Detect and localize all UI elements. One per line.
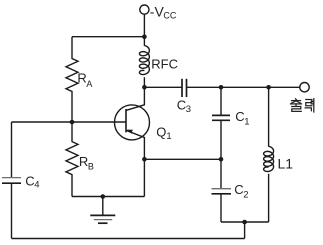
ground	[90, 197, 115, 224]
wire emitter to ground row	[143, 159, 145, 196]
wire bottom riser	[244, 222, 246, 239]
resistor RB	[66, 122, 78, 197]
capacitor C3	[181, 79, 183, 97]
junction dot (102.8,196.5)	[101, 194, 106, 199]
capacitor C1	[212, 114, 230, 116]
svg-text:RFC: RFC	[151, 56, 178, 71]
svg-text:L1: L1	[278, 156, 294, 172]
wire C2 top	[220, 159, 222, 188]
transistor Q1	[115, 87, 150, 159]
svg-text:Q: Q	[156, 124, 166, 139]
junction dot (221,87.3)	[219, 85, 224, 90]
junction dot (221,159.3)	[219, 157, 224, 162]
wire L1 bottom	[268, 174, 270, 222]
resistor RA	[66, 37, 78, 122]
wire VCC to RFC	[143, 14, 145, 46]
capacitor C2	[212, 188, 232, 190]
junction dot (72,122)	[70, 120, 75, 125]
junction dot (244.6,222)	[242, 220, 247, 225]
wire C1 top	[220, 87, 222, 115]
svg-text:-V: -V	[150, 4, 165, 20]
svg-text:CC: CC	[163, 10, 176, 20]
inductor L1	[264, 146, 274, 171]
svg-text:B: B	[88, 161, 94, 171]
svg-text:2: 2	[243, 190, 248, 201]
label output (출력)	[291, 99, 314, 112]
junction dot (268.6,87.3)	[266, 85, 271, 90]
svg-text:3: 3	[186, 104, 191, 115]
svg-text:R: R	[79, 154, 88, 169]
svg-text:R: R	[77, 71, 86, 86]
wire RFC bottom to junction	[143, 77, 145, 87]
wire base row	[12, 121, 126, 123]
inductor RFC	[139, 46, 149, 75]
wire ground row	[72, 196, 144, 198]
wire emitter row	[144, 158, 221, 160]
wire C2 bottom	[220, 194, 222, 222]
wire bottom rail	[12, 238, 245, 240]
wire left column bottom	[11, 183, 13, 238]
wire C1 bottom	[220, 120, 222, 159]
svg-text:A: A	[86, 79, 92, 89]
wire C2-L1 bottom row	[221, 221, 269, 223]
wire C3 row left	[144, 86, 182, 88]
svg-text:1: 1	[244, 116, 249, 127]
wire top rail right	[187, 86, 300, 88]
junction dot (144.4,159.3)	[142, 157, 147, 162]
svg-text:1: 1	[166, 131, 171, 142]
wire top rail to RA	[72, 36, 144, 38]
wire L1 top	[268, 87, 270, 146]
svg-text:4: 4	[34, 180, 39, 191]
junction dot (144.4,36.7)	[142, 34, 147, 39]
wire left column top	[11, 122, 13, 178]
terminal output	[300, 83, 309, 92]
junction dot (144.4,87.3)	[142, 85, 147, 90]
terminal -VCC	[140, 5, 149, 14]
capacitor C4	[2, 177, 21, 179]
